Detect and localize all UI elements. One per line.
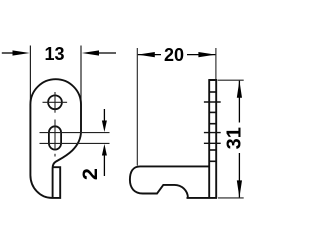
dimension 31 line with outward arrows [237, 81, 242, 198]
slot lower arc centerline / dim 2 lower extension line [40, 142, 110, 144]
hook profile side view [130, 166, 209, 197]
extension line top of dim 31 [218, 79, 244, 81]
slot vertical centerline [54, 120, 56, 151]
round hole centerline vertical [54, 92, 56, 113]
round hole centerline horizontal [43, 101, 68, 103]
svg-text:13: 13 [44, 44, 64, 64]
serration rung [209, 149, 216, 151]
slot lower centerline across plate [204, 142, 221, 144]
slot upper centerline across plate [204, 132, 221, 134]
extension line right of dim 13 / part right edge [80, 46, 82, 105]
dimension 2 up arrow [102, 144, 107, 176]
hole centerline across plate [204, 101, 221, 103]
dimension 13 left arrow [2, 50, 30, 55]
dimension text 20 [161, 45, 187, 65]
plate outline side view [208, 80, 217, 198]
dimension 20 line with outward arrows [138, 52, 216, 57]
round hole [48, 95, 62, 109]
dimension 13 right arrow [82, 50, 116, 55]
serration rung [209, 160, 216, 162]
svg-text:31: 31 [224, 127, 246, 149]
slot centerline lower tick [54, 154, 56, 157]
extension line left of dim 20 [136, 48, 138, 166]
bracket outline front view [30, 79, 81, 198]
svg-text:2: 2 [78, 168, 102, 180]
dimension 2 down arrow [102, 109, 107, 132]
slotted hole [49, 126, 61, 149]
serration rung [209, 91, 216, 93]
dimension text 31 (rotated) [224, 123, 246, 154]
svg-text:20: 20 [164, 45, 184, 65]
extension line right of dim 20 [215, 48, 217, 80]
bottom edge of hook and plate [187, 197, 218, 199]
serration rung [209, 111, 216, 113]
extension line bottom of dim 31 [218, 197, 244, 199]
serration rung [209, 123, 216, 125]
slot upper arc centerline / dim 2 upper extension line [40, 132, 110, 134]
extension line left of dim 13 / part left edge [29, 46, 31, 105]
